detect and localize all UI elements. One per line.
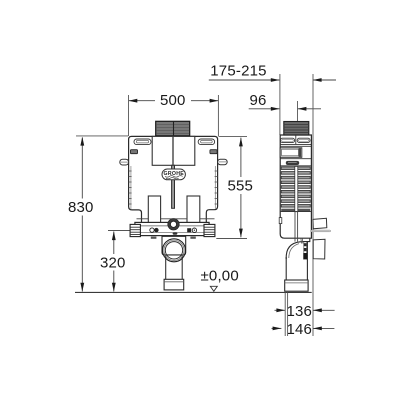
- rail end cap right: [204, 224, 215, 236]
- side top slots: [280, 138, 294, 142]
- rail center pill: [173, 232, 178, 234]
- dimension 500 extension line left: [128, 95, 130, 136]
- ground line: [75, 291, 312, 293]
- extension line side left top: [279, 74, 281, 135]
- dimension 320 extension line: [108, 230, 132, 232]
- flush bend circle: [168, 219, 179, 230]
- svg-text:500: 500: [160, 92, 186, 109]
- rail detail right square: [187, 228, 191, 232]
- clamp dark marks: [303, 242, 305, 259]
- dimension 830 arrow down: [80, 283, 84, 292]
- inner wall line left: [130, 166, 132, 209]
- rail detail right circle: [192, 228, 196, 232]
- wall ticks right: [215, 171, 218, 204]
- actuator box front: [156, 121, 190, 136]
- dimension 500 arrow right: [210, 99, 219, 103]
- drain collar: [162, 236, 186, 255]
- clip right: [210, 150, 217, 154]
- side front panel: [280, 148, 302, 158]
- side rib bottom band: [281, 209, 310, 212]
- dimension 555 extension line bottom: [216, 238, 247, 240]
- dimension 175-215 line: [209, 79, 280, 81]
- svg-text:136: 136: [286, 303, 312, 320]
- dimension 96 arrow right: [271, 107, 280, 111]
- dimension 555 line: [240, 138, 242, 177]
- access shaft: [152, 136, 195, 165]
- dimension 146 left arrow: [272, 327, 282, 329]
- dimension 146 right arrow: [313, 327, 334, 329]
- drain foot: [164, 279, 184, 290]
- rail detail left circle: [150, 228, 154, 232]
- clip left: [130, 150, 137, 154]
- level triangle: [210, 286, 217, 291]
- slot top left: [134, 139, 151, 145]
- svg-text:320: 320: [100, 254, 126, 271]
- drain circles: [163, 239, 186, 262]
- dimension 830 line: [81, 138, 83, 199]
- side body outline: [280, 135, 311, 238]
- dimension 96 right arrow with tail: [298, 108, 321, 110]
- side channel lower: [294, 212, 296, 242]
- inner wall line right: [214, 166, 216, 209]
- dimension 830 arrow up: [80, 137, 84, 146]
- side left notch: [279, 218, 282, 224]
- frame rail line: [137, 218, 149, 220]
- outlet rod: [311, 230, 331, 232]
- svg-text:±0,00: ±0,00: [200, 267, 238, 284]
- dimension 500 arrow left: [129, 99, 138, 103]
- lower white box: [313, 239, 325, 259]
- rail marks below: [151, 237, 157, 239]
- svg-text:96: 96: [249, 92, 266, 109]
- GROHE logo badge: [162, 169, 185, 180]
- dimension 320 line: [113, 232, 115, 255]
- wall ticks left: [129, 171, 132, 204]
- cistern tank outline: [129, 136, 218, 222]
- dimension 555 extension line top: [219, 135, 248, 137]
- elbow inner arc: [289, 244, 299, 258]
- slot top right: [198, 139, 214, 145]
- rail end cap left: [130, 224, 140, 236]
- tab right: [218, 159, 228, 165]
- dimension 555 arrow up: [239, 138, 243, 147]
- svg-text:175-215: 175-215: [210, 63, 266, 80]
- dimension 136 right arrow: [313, 309, 335, 311]
- side logo pill: [286, 161, 299, 165]
- dimension 320 arrow down: [112, 283, 116, 292]
- side lower line: [280, 211, 311, 213]
- tab left: [120, 159, 129, 165]
- side channel: [295, 166, 298, 211]
- svg-text:555: 555: [227, 177, 253, 194]
- side ribs: [281, 167, 310, 207]
- dimension 175-215 arrow right: [271, 78, 280, 82]
- actuator box side: [284, 122, 309, 136]
- dimension 500 extension line right: [217, 95, 219, 136]
- drain pipe walls: [165, 255, 167, 279]
- mounting rail bar: [135, 222, 209, 235]
- flush pipe center: [172, 165, 175, 208]
- elbow pipe left wall: [285, 257, 287, 280]
- inlet box upper: [313, 218, 327, 229]
- side foot: [285, 280, 308, 291]
- dimension 500 line: [129, 100, 155, 102]
- elbow outer arc: [286, 238, 310, 259]
- extension line mid (96): [297, 101, 299, 122]
- leg left: [148, 196, 160, 227]
- leg right: [187, 196, 200, 227]
- extension lines below foot: [284, 293, 286, 337]
- clamp wires: [300, 239, 303, 244]
- dimension 830 extension line top: [76, 135, 128, 137]
- svg-text:830: 830: [68, 199, 94, 216]
- dimension 96 line: [249, 108, 280, 110]
- dimension 136 left arrow: [275, 309, 286, 311]
- dimension 320 arrow up: [112, 231, 116, 240]
- svg-text:146: 146: [286, 321, 312, 338]
- rail detail left dark circle: [154, 228, 158, 232]
- elbow pipe right wall: [306, 242, 308, 280]
- dimension 555 arrow down: [239, 229, 243, 238]
- dimension 175-215 right arrow with tail: [313, 79, 336, 81]
- extension line wall right: [312, 74, 314, 336]
